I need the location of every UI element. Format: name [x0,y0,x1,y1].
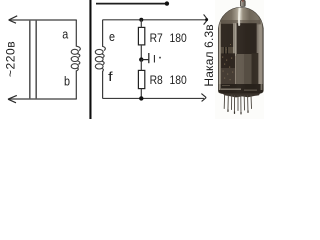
mica column [236,54,252,84]
svg-text:R8: R8 [150,74,163,87]
resistor R8 [138,70,144,88]
svg-text:f: f [108,69,113,84]
transformer core line 2 [35,20,37,99]
glints on base [221,89,241,90]
arrow to load (bottom right) [201,94,206,102]
svg-text:180: 180 [170,32,187,45]
svg-text:Накал 6.3в: Накал 6.3в [202,24,216,86]
anode plate left [221,24,234,47]
node dot middle [139,57,143,61]
winding a-b lead bottom [75,70,77,99]
node dot bottom [139,96,143,100]
wire R7 top [140,20,142,28]
dot after I [159,57,161,59]
pins [224,95,251,114]
winding a-b lead top [75,20,77,47]
svg-text:~220в: ~220в [3,41,17,77]
label R7 180 [150,32,187,45]
svg-text:180: 180 [170,74,187,87]
arrow to mains (top left) [9,16,18,23]
winding a-b coil [71,46,80,71]
base dark band [218,84,264,94]
socket rim shadow [222,93,260,97]
speckles [222,44,233,80]
stray top wire [96,3,166,5]
secondary bottom wire [103,97,205,99]
secondary top wire [103,19,206,21]
wire R8 bottom [140,89,142,99]
dome lower shadow [217,20,265,25]
right dark band [252,53,259,84]
arrow to mains (bottom left) [8,95,17,102]
svg-text:b: b [64,73,70,88]
inner wires [224,47,226,54]
getter speckle block [221,53,235,84]
wire: primary bottom horizontal [9,98,77,100]
wire R8 top [140,60,142,71]
arrow to load (top right) with dot [204,14,208,24]
winding e-f lead top [102,20,104,47]
svg-text:a: a [62,26,69,41]
node dot top [139,18,143,22]
panel divider [89,0,91,119]
dome highlight [238,8,241,26]
winding e-f lead bottom [102,71,104,99]
current tap: line and bar [141,59,149,61]
winding e-f coil [95,46,105,71]
node dot on stray wire [165,1,169,5]
svg-text:e: e [109,29,115,44]
resistor R7 [138,27,144,45]
dome glass [217,4,265,24]
svg-text:R7: R7 [150,32,163,45]
glass seam highlight [233,23,236,56]
pin tips [227,110,248,115]
svg-text:I: I [153,53,156,65]
lower body midtone overlay [221,68,235,84]
wire: primary top horizontal [10,19,77,21]
tube envelope [217,0,265,114]
label R8 180 [150,74,187,87]
photo background [215,0,264,119]
evacuation nub [240,0,245,6]
side rims [219,10,221,90]
transformer core line 1 [29,20,31,99]
wire R7 bottom [140,45,142,60]
anode plate right [236,23,256,54]
